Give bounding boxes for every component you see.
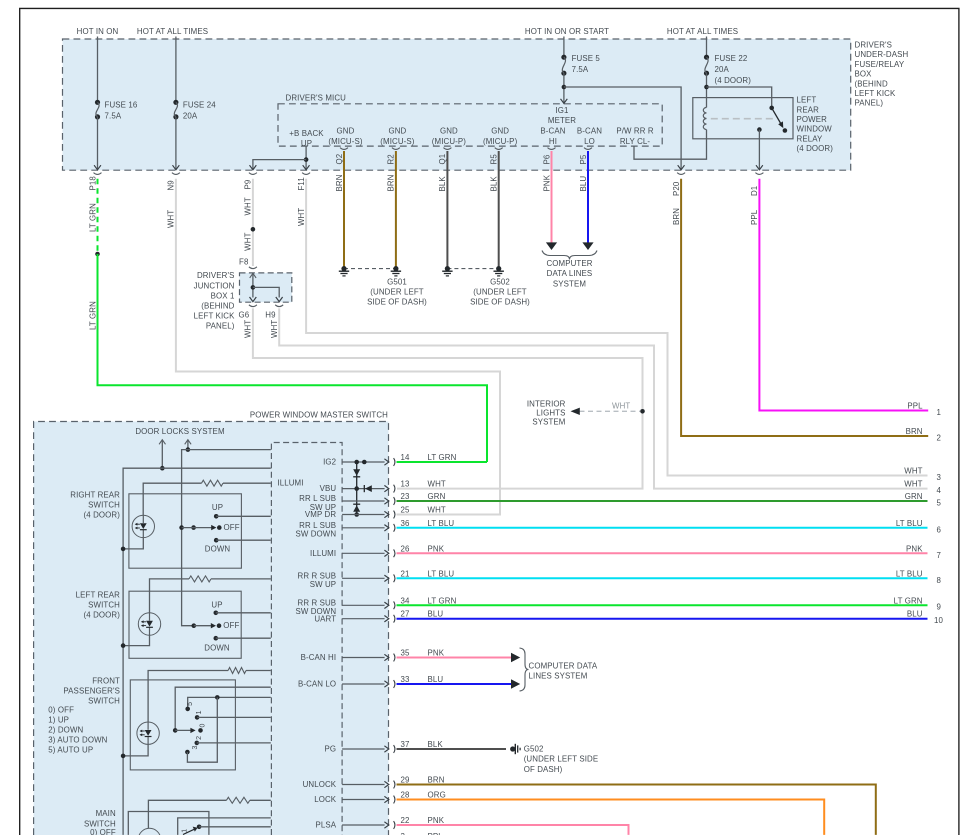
wire F11 WHT [306,179,927,476]
svg-text:MAIN: MAIN [96,809,116,818]
svg-text:PNK: PNK [542,174,551,191]
svg-text:DOWN: DOWN [204,643,230,652]
svg-text:BRN: BRN [906,427,923,436]
svg-text:PNK: PNK [428,544,445,553]
svg-text:SYSTEM: SYSTEM [532,417,565,426]
svg-text:SW DOWN: SW DOWN [295,530,336,539]
svg-text:WHT: WHT [244,197,253,215]
LED main (partial) [138,828,160,835]
wire 22 PNK [397,825,629,835]
wire LED to bus [123,538,143,549]
front passenger's switch contacts [175,687,271,730]
svg-text:OF DASH): OF DASH) [524,765,563,774]
interior lights system tap [640,409,645,414]
svg-text:WHT: WHT [270,320,279,338]
wire +B BACK UP to F11 and P9 [305,146,307,169]
svg-text:7.5A: 7.5A [572,65,589,74]
svg-text:DRIVER'S: DRIVER'S [855,41,893,50]
contact 2 [195,741,200,746]
pin 25 VMP DR [342,514,385,516]
driver's junction box 1 [240,273,292,302]
wire branch to P20 [564,87,681,169]
pin 26 ILLUMI [342,552,385,554]
svg-text:5) AUTO UP: 5) AUTO UP [48,746,93,755]
svg-text:SWITCH: SWITCH [88,501,120,510]
svg-text:FUSE 22: FUSE 22 [715,54,748,63]
svg-text:Q2: Q2 [335,154,344,165]
svg-text:2: 2 [196,736,203,740]
svg-text:2) DOWN: 2) DOWN [48,726,83,735]
connector P20 [677,173,685,175]
wire to fuse 5 [563,37,565,58]
svg-text:PPL: PPL [750,209,759,225]
svg-text:(MICU-S): (MICU-S) [380,137,415,146]
svg-text:3: 3 [937,473,942,482]
connector N9 [172,173,180,175]
wire hot-at-all-times to fuse 24 [175,37,177,103]
svg-text:FUSE/RELAY: FUSE/RELAY [855,60,905,69]
resistor right rear illumi [143,483,201,515]
fuse 5 [561,55,566,60]
svg-text:PANEL): PANEL) [206,321,235,330]
wire Q1 BLK to G502 [446,151,448,269]
computer data lines system (top) [542,251,597,260]
svg-text:WHT: WHT [428,480,446,489]
right rear switch box [129,494,242,568]
svg-text:DRIVER'S: DRIVER'S [197,271,235,280]
svg-text:DOOR LOCKS SYSTEM: DOOR LOCKS SYSTEM [135,427,224,436]
front passenger's switch box [130,680,235,770]
svg-text:P6: P6 [542,154,551,164]
relay switch contacts [769,106,774,111]
svg-text:RIGHT REAR: RIGHT REAR [70,490,120,499]
svg-text:(BEHIND: (BEHIND [201,301,234,310]
svg-text:LOCK: LOCK [314,795,337,804]
svg-text:3) AUTO DOWN: 3) AUTO DOWN [48,736,107,745]
svg-text:PASSENGER'S: PASSENGER'S [63,687,120,696]
svg-text:F11: F11 [297,177,306,190]
svg-text:2: 2 [937,433,942,442]
svg-text:5: 5 [937,498,942,507]
svg-text:HI: HI [549,137,557,146]
svg-text:N9: N9 [167,180,176,191]
wire relay output to D1 [758,130,760,170]
svg-text:WHT: WHT [244,232,253,250]
master switch fill [34,422,389,835]
svg-text:LT BLU: LT BLU [428,519,455,528]
svg-text:Q1: Q1 [438,154,447,165]
diode chain IG2/VBU/VMP [354,460,359,465]
svg-text:RELAY: RELAY [797,134,824,143]
svg-text:20A: 20A [715,65,730,74]
svg-text:LIGHTS: LIGHTS [536,408,565,417]
wire to fuse 22 [706,37,708,58]
svg-text:WHT: WHT [428,506,446,515]
svg-text:LT GRN: LT GRN [88,301,97,330]
svg-text:RLY CL-: RLY CL- [620,137,651,146]
svg-text:F8: F8 [239,258,249,267]
svg-text:36: 36 [401,519,411,528]
svg-text:FUSE 16: FUSE 16 [105,101,138,110]
svg-text:0: 0 [200,723,207,727]
svg-text:20A: 20A [183,111,198,120]
svg-text:SW UP: SW UP [310,580,336,589]
wire fuse 16 to P18 [97,117,99,169]
wire 29 BRN [397,785,876,835]
ground G501 [344,268,396,270]
junction box fill [240,273,292,302]
svg-text:(4 DOOR): (4 DOOR) [84,611,121,620]
svg-text:(4 DOOR): (4 DOOR) [797,144,834,153]
svg-text:UP: UP [211,600,222,609]
svg-text:BOX 1: BOX 1 [211,291,235,300]
svg-text:ORG: ORG [428,791,446,800]
svg-text:SYSTEM: SYSTEM [553,280,586,289]
svg-text:BLU: BLU [579,176,588,192]
svg-text:35: 35 [401,649,411,658]
svg-text:G502: G502 [524,744,544,753]
svg-text:UART: UART [314,614,336,623]
svg-text:SIDE OF DASH): SIDE OF DASH) [470,298,530,307]
svg-text:LEFT REAR: LEFT REAR [76,590,121,599]
svg-text:BLK: BLK [490,176,499,192]
wire P6 PNK [551,151,553,244]
svg-text:IG2: IG2 [323,458,336,467]
svg-text:PLSA: PLSA [316,821,337,830]
svg-text:BOX: BOX [855,70,873,79]
svg-text:FUSE 5: FUSE 5 [572,54,601,63]
contact 3 loop [185,750,190,755]
pin 23 RR L SUB SW UP [342,500,385,502]
svg-text:DRIVER'S MICU: DRIVER'S MICU [286,94,347,103]
svg-text:INTERIOR: INTERIOR [527,399,566,408]
svg-text:(4 DOOR): (4 DOOR) [84,511,121,520]
left rear switch box [129,591,241,658]
LED left rear [138,613,160,635]
junction box internal split [252,273,254,297]
svg-text:LO: LO [584,137,595,146]
svg-text:G501: G501 [387,278,407,287]
svg-text:GND: GND [491,127,509,136]
svg-text:UNLOCK: UNLOCK [303,780,337,789]
wire door locks row A [182,450,271,528]
svg-text:5: 5 [187,702,194,706]
wire G6 WHT [253,308,643,488]
svg-text:B-CAN HI: B-CAN HI [301,653,337,662]
resistor front passenger illumi [148,671,228,722]
svg-text:LT GRN: LT GRN [894,596,923,605]
svg-text:WHT: WHT [244,320,253,338]
svg-text:GND: GND [337,127,355,136]
svg-text:D1: D1 [750,186,759,196]
wire P5 BLU [587,151,589,244]
svg-text:HOT IN ON OR START: HOT IN ON OR START [525,27,609,36]
wire H9 WHT [279,308,927,488]
svg-text:PNK: PNK [906,544,923,553]
svg-text:21: 21 [401,569,410,578]
svg-text:LT GRN: LT GRN [428,453,457,462]
svg-text:FUSE 24: FUSE 24 [183,101,216,110]
svg-text:WINDOW: WINDOW [797,125,833,134]
svg-text:(UNDER LEFT: (UNDER LEFT [370,288,424,297]
svg-text:SIDE OF DASH): SIDE OF DASH) [367,298,427,307]
svg-text:3: 3 [192,745,199,749]
wire 28 ORG [397,800,825,835]
wire R5 BLK to G502 [498,151,500,269]
wire P9 WHT to junction box F8 [252,179,254,266]
svg-text:PANEL): PANEL) [855,99,884,108]
resistor main illumi [148,800,226,828]
svg-text:REAR: REAR [797,105,820,114]
svg-text:+B BACK: +B BACK [289,129,324,138]
svg-text:(4 DOOR): (4 DOOR) [715,76,752,85]
svg-text:B-CAN: B-CAN [577,127,602,136]
fuse box fill [63,39,851,170]
svg-text:UNDER-DASH: UNDER-DASH [855,50,909,59]
svg-text:WHT: WHT [167,210,176,228]
main switch contacts [178,818,271,835]
pin 36 RR L SUB SW DOWN [342,527,385,529]
connector H9 [275,305,283,307]
contact 5 [188,697,271,709]
wire switch common bus [182,528,194,626]
wire fuse 5 to IG1 and P20 branch [563,73,565,103]
svg-text:GRN: GRN [428,492,446,501]
pin 22 PLSA [342,824,385,826]
relay mechanical link [711,118,773,120]
svg-text:ILLUMI: ILLUMI [310,549,336,558]
svg-text:GND: GND [388,127,406,136]
svg-text:1) UP: 1) UP [48,716,69,725]
LED right rear [132,515,154,537]
driver's MICU box [278,104,662,146]
wire LED to bus [123,635,149,645]
svg-text:GRN: GRN [905,492,923,501]
contact 1 [195,715,200,720]
svg-text:27: 27 [401,610,410,619]
svg-text:(BEHIND: (BEHIND [855,79,888,88]
pin 13 VBU [342,488,385,490]
svg-text:G6: G6 [239,311,250,320]
svg-text:29: 29 [401,776,411,785]
svg-text:VMP DR: VMP DR [305,510,336,519]
svg-text:LEFT KICK: LEFT KICK [855,89,896,98]
wire coil to RLY CL- [634,130,707,160]
wire LED to bus [123,745,148,756]
svg-text:PG: PG [325,745,337,754]
svg-text:METER: METER [548,116,576,125]
pin 35 B-CAN HI [342,657,385,659]
wire fuse 24 to N9 [175,117,177,169]
fuse 16 [95,100,100,105]
resistor left rear illumi [150,579,190,613]
wire door locks row B / illumination bus [123,468,271,835]
svg-text:7.5A: 7.5A [105,111,122,120]
diode on VBU row [363,485,365,492]
svg-text:H9: H9 [265,311,276,320]
svg-text:DATA LINES: DATA LINES [547,269,593,278]
svg-text:6: 6 [937,525,942,534]
svg-text:B-CAN: B-CAN [540,127,565,136]
connector P9 [249,173,257,175]
pin 29 UNLOCK [342,784,385,786]
svg-text:13: 13 [401,480,411,489]
wire R2 BRN to G501 [395,151,397,269]
wire P18 LT GRN [97,179,99,254]
svg-text:BRN: BRN [335,174,344,191]
svg-text:9: 9 [937,603,942,612]
svg-text:HOT AT ALL TIMES: HOT AT ALL TIMES [137,27,208,36]
svg-text:LT GRN: LT GRN [428,596,457,605]
wire fuse 22 to relay contact [707,87,772,108]
svg-text:BLU: BLU [907,610,923,619]
ground G502 (bottom) [510,746,515,751]
master switch inner connector box [271,443,342,835]
wire Q2 BRN to G501 [343,151,345,269]
svg-text:BLK: BLK [428,740,444,749]
svg-text:HOT IN ON: HOT IN ON [77,27,119,36]
svg-text:10: 10 [934,616,944,625]
svg-text:P20: P20 [672,181,681,196]
power window master switch box [34,422,389,835]
driver's under-dash fuse/relay box [63,39,851,170]
svg-text:G502: G502 [490,278,510,287]
connector D1 [755,173,763,175]
svg-text:4: 4 [937,486,942,495]
wire hot-in-on to fuse 16 [97,37,99,103]
svg-text:B-CAN LO: B-CAN LO [298,680,336,689]
svg-text:PPL: PPL [907,402,923,411]
pin 14 IG2 [342,461,385,463]
svg-text:26: 26 [401,544,411,553]
svg-text:GND: GND [440,127,458,136]
ground G502 (top) [447,268,498,270]
connector G6 [249,305,257,307]
svg-text:HOT AT ALL TIMES: HOT AT ALL TIMES [667,27,738,36]
svg-text:LINES SYSTEM: LINES SYSTEM [529,672,588,681]
svg-text:POWER: POWER [797,115,828,124]
svg-text:UP: UP [212,503,223,512]
svg-text:1: 1 [196,710,203,714]
svg-text:LEFT: LEFT [797,96,817,105]
svg-text:PNK: PNK [428,816,445,825]
svg-text:23: 23 [401,492,411,501]
svg-text:LEFT KICK: LEFT KICK [194,311,235,320]
fuse 24 [173,100,178,105]
svg-text:DOWN: DOWN [205,544,231,553]
wire fuse 22 to relay coil [706,73,708,107]
pin 21 RR R SUB SW UP [342,577,385,579]
svg-text:WHT: WHT [612,402,630,411]
fuse 22 [704,55,709,60]
connector P18 [94,173,102,175]
svg-text:WHT: WHT [904,467,922,476]
svg-text:JUNCTION: JUNCTION [194,281,235,290]
svg-text:28: 28 [401,791,411,800]
svg-text:34: 34 [401,596,411,605]
svg-text:ILLUMI: ILLUMI [277,479,303,488]
computer data lines system (bottom) brace [520,648,529,691]
svg-text:8: 8 [937,576,942,585]
svg-text:(MICU-P): (MICU-P) [483,137,518,146]
svg-text:BRN: BRN [672,208,681,225]
svg-text:R2: R2 [387,154,396,164]
svg-text:LT BLU: LT BLU [896,569,923,578]
svg-text:33: 33 [401,675,411,684]
wire D1 PPL [759,179,928,411]
svg-text:COMPUTER DATA: COMPUTER DATA [529,661,598,670]
wire P20 BRN [681,179,928,436]
svg-text:LT BLU: LT BLU [896,519,923,528]
svg-text:WHT: WHT [904,480,922,489]
svg-text:BLU: BLU [428,675,444,684]
svg-text:(UNDER LEFT SIDE: (UNDER LEFT SIDE [524,755,599,764]
wire N9 WHT [176,179,500,515]
pin 37 PG [342,748,385,750]
relay: left rear power window relay box [693,98,793,139]
svg-text:SWITCH: SWITCH [88,697,120,706]
relay coil [703,107,706,129]
svg-text:P5: P5 [579,154,588,164]
svg-text:BLU: BLU [428,610,444,619]
svg-text:VBU: VBU [320,484,337,493]
svg-text:1: 1 [937,408,942,417]
svg-text:POWER WINDOW MASTER SWITCH: POWER WINDOW MASTER SWITCH [250,410,388,419]
pin 33 B-CAN LO [342,683,385,685]
svg-text:LT GRN: LT GRN [88,203,97,232]
svg-text:BRN: BRN [428,776,445,785]
svg-text:COMPUTER: COMPUTER [546,259,592,268]
pin 28 LOCK [342,799,385,801]
main switch box [128,812,209,835]
pin 27 UART [342,618,385,620]
svg-text:22: 22 [401,816,410,825]
svg-text:OFF: OFF [224,523,240,532]
svg-text:P18: P18 [88,176,97,191]
svg-text:BLK: BLK [438,176,447,192]
connector F8 [249,267,257,269]
svg-text:WHT: WHT [297,208,306,226]
svg-text:P/W RR R: P/W RR R [616,127,654,136]
svg-text:BRN: BRN [387,174,396,191]
connector F11 [302,173,310,175]
svg-text:(UNDER LEFT: (UNDER LEFT [473,288,527,297]
svg-text:P9: P9 [244,179,253,189]
pin 34 RR R SUB SW DOWN [342,604,385,606]
svg-text:25: 25 [401,506,411,515]
svg-text:PNK: PNK [428,649,445,658]
svg-text:(MICU-S): (MICU-S) [328,137,363,146]
diode VMP to VBU [356,489,358,515]
svg-text:SWITCH: SWITCH [88,600,120,609]
svg-text:7: 7 [937,551,942,560]
svg-text:0) OFF: 0) OFF [48,706,74,715]
svg-text:37: 37 [401,740,410,749]
svg-text:1: 1 [182,829,189,833]
svg-text:(MICU-P): (MICU-P) [432,137,467,146]
svg-text:LT BLU: LT BLU [428,569,455,578]
svg-text:IG1: IG1 [555,106,568,115]
svg-text:14: 14 [401,453,411,462]
svg-text:0) OFF: 0) OFF [90,828,116,835]
svg-text:OFF: OFF [223,621,239,630]
LED front passenger [137,722,159,744]
svg-text:FRONT: FRONT [92,677,120,686]
svg-text:R5: R5 [490,154,499,165]
